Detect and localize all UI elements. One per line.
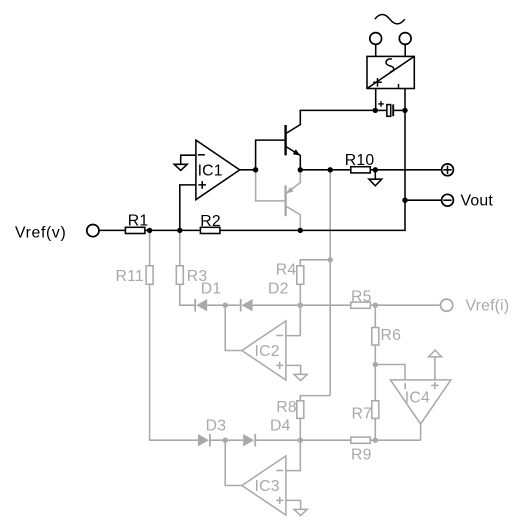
wire R6 to R7 [374, 345, 376, 401]
wire IC2 minus input [286, 305, 300, 335]
wire R10 to plus terminal [370, 169, 441, 171]
svg-text:R2: R2 [200, 213, 221, 230]
transistor Q2 [286, 170, 301, 231]
wire R5 to Vref(i) [370, 304, 440, 306]
wire IC1 plus input [180, 185, 196, 231]
svg-text:R8: R8 [276, 399, 297, 416]
rectifier AC squiggle [386, 59, 394, 72]
wire rectifier left output [375, 89, 377, 111]
svg-text:R9: R9 [351, 447, 372, 464]
ground arrow IC1 [174, 164, 187, 170]
rectifier minus mark [398, 84, 400, 88]
AC sine symbol [375, 15, 405, 24]
resistor R6 [372, 328, 379, 346]
wire Q1 base [256, 140, 285, 170]
node cap left junction [373, 108, 378, 113]
node cap right junction [402, 108, 407, 113]
rectifier diagonal [367, 56, 414, 88]
svg-text:Vref(v): Vref(v) [15, 225, 66, 242]
wire DC rail to cap [375, 109, 387, 111]
ground arrow IC2 [294, 374, 307, 380]
capacitor C1 minus plate [392, 104, 394, 116]
svg-text:R4: R4 [276, 262, 297, 279]
resistor R2 [200, 227, 220, 233]
transistor Q1 [286, 110, 376, 169]
node R4 jog junction [328, 257, 333, 262]
IC1 minus mark [198, 154, 205, 156]
node R5-R6 junction [373, 303, 378, 308]
svg-text:R6: R6 [381, 327, 402, 344]
wire IC2 plus input [286, 365, 301, 374]
wire R1 to R2 [145, 229, 201, 231]
diode D1 [195, 299, 207, 312]
wire Vout minus to rail [405, 199, 442, 201]
node R10 right junction [373, 167, 378, 172]
wire R3 top column [179, 230, 181, 265]
svg-text:IC1: IC1 [198, 162, 223, 179]
op-amp IC2 [242, 321, 286, 380]
wire AC right stem [404, 44, 406, 56]
node R1 junction [147, 228, 152, 233]
svg-text:Vout: Vout [461, 193, 494, 210]
wire R11 bottom to D3 row [150, 284, 198, 440]
terminal plus [442, 164, 454, 176]
rectifier PS1 box [367, 56, 414, 88]
terminal Vref(i) [441, 299, 453, 311]
svg-text:IC3: IC3 [255, 478, 280, 495]
svg-text:D2: D2 [268, 281, 289, 298]
resistor R3 [176, 266, 183, 285]
resistor R11 [146, 266, 153, 285]
IC4 power arrow [429, 350, 442, 380]
diode D2 [241, 299, 253, 312]
node long vertical junction [328, 167, 333, 172]
node R6-IC4 junction [373, 362, 378, 367]
svg-text:IC4: IC4 [405, 390, 430, 407]
wire IC4 output [420, 424, 422, 440]
wire D4 to R9 [255, 439, 351, 441]
IC3 plus mark [276, 497, 283, 504]
svg-text:D1: D1 [201, 280, 222, 297]
wire main output row [300, 169, 351, 171]
node D1-D2 junction [223, 303, 228, 308]
wire D3 to D4 [210, 439, 243, 441]
wire R9 to IC4 output [370, 439, 420, 441]
wire R4 bottom to D2 junction [299, 284, 301, 305]
wire D2 to R5 [253, 304, 351, 306]
IC2 plus mark [276, 362, 283, 369]
resistor R4 [297, 266, 304, 285]
node Q1 emitter junction [298, 167, 303, 172]
svg-text:R7: R7 [352, 406, 373, 423]
wire Q2 base drive [256, 170, 285, 201]
node R8/IC3- junction [298, 438, 303, 443]
IC2 minus mark [276, 335, 283, 337]
ground arrow R10 [369, 170, 382, 186]
wire jog to R8 [300, 396, 330, 401]
svg-text:R10: R10 [345, 152, 375, 169]
wire IC3 plus input [286, 500, 301, 509]
IC3 minus mark [276, 470, 283, 472]
terminal Vref(v) [87, 225, 99, 237]
wire cap to right rail [394, 109, 405, 111]
node D3-D4 junction [223, 438, 228, 443]
terminal AC right [399, 33, 411, 45]
wire R2 to right rail [220, 200, 405, 230]
wire R7 to D3 row [374, 418, 376, 440]
terminal AC left [370, 33, 382, 45]
resistor R1 [125, 227, 144, 233]
svg-text:D4: D4 [270, 418, 291, 435]
svg-text:Vref(i): Vref(i) [466, 297, 510, 314]
wire R3 bottom to D1 [180, 284, 195, 305]
wire IC3 minus input [286, 440, 300, 470]
resistor R8 [297, 401, 304, 419]
op-amp IC3 [242, 456, 286, 515]
IC4 minus mark [404, 383, 406, 389]
node Q2 collector junction [298, 228, 303, 233]
wire D1 to D2 [207, 304, 240, 306]
svg-text:R11: R11 [116, 268, 144, 285]
diode D4 [243, 434, 255, 447]
node Vout junction [402, 198, 407, 203]
svg-text:D3: D3 [206, 418, 227, 435]
terminal minus Vout [442, 194, 454, 206]
wire IC4 minus input [375, 365, 405, 380]
svg-text:R1: R1 [128, 213, 149, 230]
wire IC1 minus input [181, 155, 196, 164]
ground arrow IC3 [294, 509, 307, 515]
wire AC left stem [375, 44, 377, 56]
capacitor C1 plus plate [387, 105, 391, 117]
node R9-R7 junction [373, 438, 378, 443]
resistor R10 [351, 167, 371, 173]
wire long vertical from main row [329, 170, 331, 396]
node IC1 plus junction [177, 228, 182, 233]
wire Vref(v) to R1 [99, 229, 125, 231]
wire jog to R4 [300, 260, 330, 266]
capacitor C1 plus label [378, 101, 384, 107]
IC1 plus mark [198, 181, 206, 189]
op-amp IC4 [390, 380, 451, 424]
IC4 plus mark [431, 382, 438, 389]
wire IC2 feedback [225, 305, 242, 350]
rectifier plus mark [373, 78, 382, 87]
wire junction to R6 [374, 305, 376, 327]
resistor R7 [372, 401, 379, 419]
svg-text:R5: R5 [351, 288, 372, 305]
svg-text:IC2: IC2 [255, 343, 280, 360]
resistor R5 [351, 302, 371, 308]
diode D3 [198, 434, 210, 447]
wire IC3 feedback [225, 440, 242, 485]
wire rectifier right output [404, 89, 406, 201]
node IC1 output junction [253, 167, 258, 172]
wire R11 top column [149, 230, 151, 265]
wire IC1 output [240, 169, 256, 171]
node R4/IC2- junction [298, 303, 303, 308]
wire R8 bottom to D4 junction [299, 418, 301, 440]
op-amp IC1 [196, 140, 240, 200]
resistor R9 [351, 437, 371, 443]
